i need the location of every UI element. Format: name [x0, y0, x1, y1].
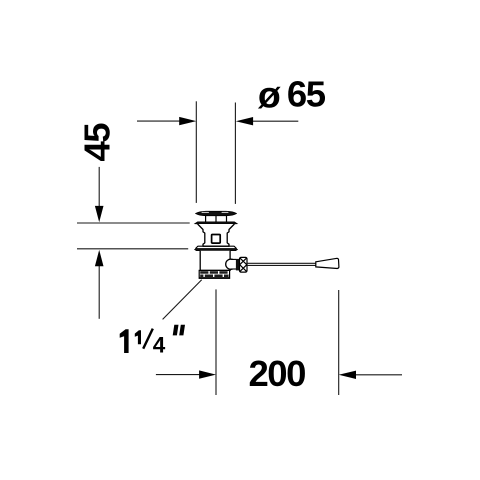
datum line upper (mounting plane) — [77, 222, 190, 224]
dimension arrow down (45) — [95, 167, 104, 222]
extension line right of dimension 200 — [338, 290, 340, 395]
dimension arrow left (ø65) — [137, 117, 196, 125]
label ø 65 — [258, 74, 326, 116]
top flange (seat rim) — [195, 222, 237, 224]
label 45 (rotated) — [77, 123, 118, 162]
lever rod — [247, 263, 316, 265]
svg-text:65: 65 — [287, 74, 326, 115]
label 1 1/4 inch — [120, 325, 185, 358]
socket ring (dark) — [236, 259, 239, 271]
funnel and upper body — [198, 224, 235, 246]
pivot socket cylinder — [231, 259, 236, 269]
extension line left of dimension ø65 — [195, 101, 197, 203]
lower body — [200, 251, 230, 271]
lever knob — [316, 258, 339, 268]
svg-text:ø: ø — [258, 74, 281, 116]
label 200 — [249, 353, 306, 394]
leader line for 1 1/4" — [163, 280, 202, 320]
plug cap — [196, 211, 237, 215]
pivot ball — [226, 259, 236, 269]
dimension arrow right (ø65) — [236, 117, 298, 125]
dimension arrow right (200) — [339, 371, 402, 379]
mid flange dark band — [195, 249, 238, 251]
dimension arrow up (45) — [95, 250, 104, 319]
overflow window (square) — [212, 235, 221, 244]
svg-text:45: 45 — [77, 123, 118, 162]
coupling nut — [240, 257, 248, 272]
mid flange plate — [195, 246, 236, 248]
extension line left of dimension 200 — [215, 289, 217, 395]
dimension arrow left (200) — [156, 370, 216, 378]
svg-text:200: 200 — [249, 353, 306, 394]
thread block — [199, 270, 230, 278]
svg-text:4: 4 — [153, 332, 166, 357]
extension line right of dimension ø65 — [234, 103, 236, 204]
plug stem — [206, 216, 227, 222]
datum line lower — [77, 248, 188, 250]
